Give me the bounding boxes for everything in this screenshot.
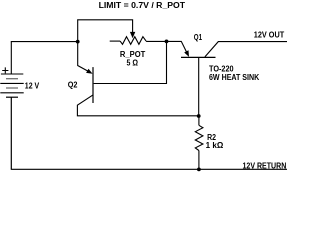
resistor R2 bottom lead xyxy=(198,151,200,170)
node D junction dot xyxy=(197,168,201,172)
node B junction dot xyxy=(165,40,169,44)
transistor Q2 emitter arrowhead xyxy=(86,69,93,74)
transistor Q2 emitter wire from node A xyxy=(78,42,91,73)
battery plate 4 short gray xyxy=(6,87,18,89)
resistor R_POT left floating lead xyxy=(110,40,120,42)
svg-text:1 kΩ: 1 kΩ xyxy=(206,141,224,150)
svg-text:6W HEAT SINK: 6W HEAT SINK xyxy=(209,73,259,82)
wire node B down to Q2 base xyxy=(94,41,167,83)
battery 12 V plate 1 long xyxy=(1,73,23,75)
pot wiper arrowhead xyxy=(130,32,135,38)
wire bottom rail xyxy=(11,168,287,170)
wire pot wiper loop xyxy=(78,20,133,42)
node C junction dot xyxy=(197,114,201,118)
svg-text:5 Ω: 5 Ω xyxy=(127,58,139,67)
transistor Q1 base wire down xyxy=(198,57,200,116)
wire top rail from battery to node A xyxy=(11,41,78,43)
svg-text:LIMIT = 0.7V / R_POT: LIMIT = 0.7V / R_POT xyxy=(99,1,186,10)
transistor Q1 emitter wire from node B xyxy=(167,41,187,52)
resistor R2 zigzag xyxy=(195,125,203,150)
transistor Q2 base bar xyxy=(92,67,94,103)
transistor Q2 collector wire xyxy=(77,95,198,116)
battery plus sign xyxy=(2,67,8,73)
transistor Q1 emitter arrowhead xyxy=(184,50,189,57)
battery V1 top lead wire xyxy=(10,42,12,74)
battery plate 6 short bottom xyxy=(6,96,18,98)
transistor Q1 collector wire to 12V OUT xyxy=(205,42,287,57)
battery plate 3 long xyxy=(0,82,23,84)
svg-text:12V RETURN: 12V RETURN xyxy=(243,161,287,171)
resistor R_POT zigzag xyxy=(120,37,146,45)
transistor Q1 base bar xyxy=(181,56,216,58)
battery plate 2 short gray xyxy=(6,78,18,80)
svg-text:12V OUT: 12V OUT xyxy=(254,30,285,39)
svg-text:Q2: Q2 xyxy=(68,81,78,90)
resistor R_POT right lead xyxy=(146,40,166,42)
svg-text:12 V: 12 V xyxy=(25,81,40,90)
resistor R2 top lead xyxy=(198,116,200,125)
battery bottom lead wire xyxy=(10,97,12,169)
svg-text:Q1: Q1 xyxy=(194,33,203,42)
node A junction dot xyxy=(76,40,80,44)
battery plate 5 long xyxy=(0,92,23,94)
